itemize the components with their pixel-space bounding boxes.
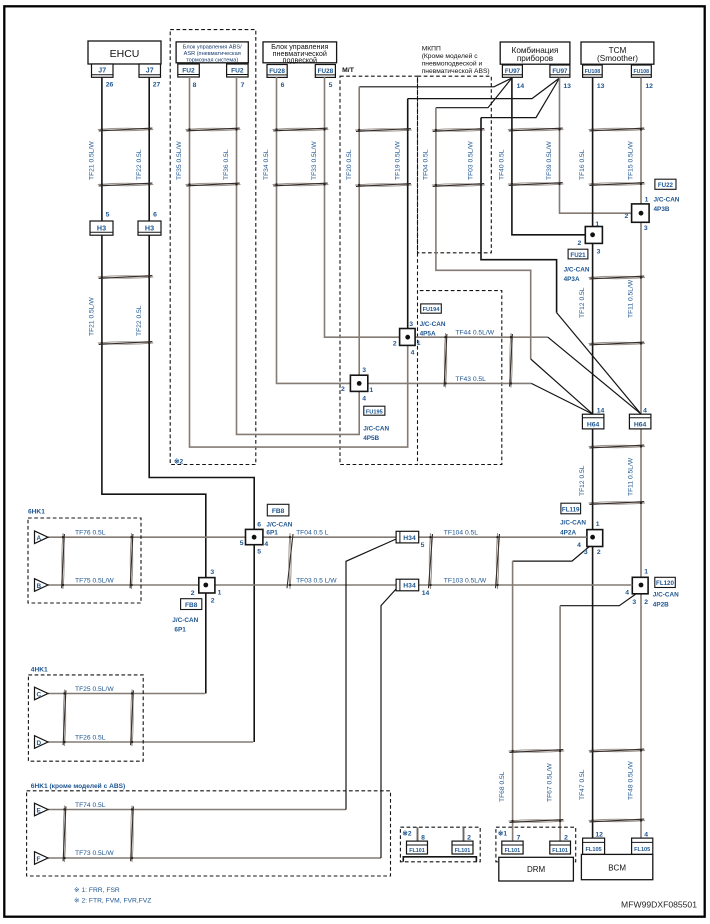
label box FU194 [421, 304, 442, 313]
svg-text:4P5A: 4P5A [420, 331, 436, 338]
svg-text:DRM: DRM [527, 865, 546, 874]
svg-text:※2: ※2 [174, 458, 184, 466]
twisted pair marks TF16/TF15 and TF12/TF11 and TF47/TF48 [589, 128, 645, 822]
svg-text:TF44 0.5L/W: TF44 0.5L/W [455, 330, 494, 337]
wire TF33 0.5L/W (FU28-5 to J/C-CAN 4P5A pin 2) [325, 77, 400, 337]
svg-text:H3: H3 [97, 223, 106, 232]
svg-text:14: 14 [422, 590, 430, 597]
connector FU28 (left) [267, 65, 287, 78]
svg-text:FL119: FL119 [562, 506, 580, 513]
svg-text:8: 8 [193, 82, 197, 89]
svg-text:3: 3 [409, 321, 413, 328]
wire TF76/TF04/TF104 0.5L (triangle A to 4P2A) [48, 536, 587, 538]
svg-text:(Smoother): (Smoother) [597, 54, 638, 63]
twisted pair marks TF74/TF73 [63, 806, 133, 863]
svg-text:J/C-CAN: J/C-CAN [654, 196, 680, 203]
triangle connector E [35, 803, 49, 816]
svg-text:TF04 0.5 L: TF04 0.5 L [296, 530, 329, 537]
svg-text:8: 8 [421, 835, 425, 842]
twisted pair marks TF34/TF33 [273, 128, 329, 186]
twisted pair marks TF44/TF43 [444, 333, 512, 387]
triangle connector F [35, 852, 49, 865]
svg-text:2: 2 [644, 599, 648, 606]
svg-text:5: 5 [240, 540, 244, 547]
svg-text:FU22: FU22 [658, 182, 674, 189]
connector H3 (right) [138, 221, 161, 235]
svg-text:TF74 0.5L: TF74 0.5L [75, 802, 106, 809]
svg-text:J7: J7 [98, 68, 106, 75]
connector FL105 (left) [583, 838, 605, 854]
svg-text:BCM: BCM [608, 864, 626, 873]
svg-text:5: 5 [106, 212, 110, 219]
unit BCM [581, 854, 652, 879]
svg-text:2: 2 [191, 590, 195, 597]
svg-text:H64: H64 [587, 422, 600, 429]
svg-text:TF04 0.5L: TF04 0.5L [423, 149, 430, 180]
label box FL119 [561, 503, 581, 514]
svg-text:TF19 0.5L/W: TF19 0.5L/W [394, 141, 401, 180]
svg-text:FU28: FU28 [318, 68, 334, 75]
svg-text:TF11 0.5L/W: TF11 0.5L/W [628, 457, 635, 496]
svg-text:1: 1 [369, 387, 373, 394]
svg-text:4: 4 [577, 542, 581, 549]
unit TCM (Smoother) [581, 42, 654, 64]
svg-text:4P3B: 4P3B [654, 206, 670, 213]
connector FU28 (right) [315, 65, 335, 78]
svg-text:6: 6 [257, 521, 261, 528]
svg-text:J/C-CAN: J/C-CAN [172, 617, 198, 624]
label box FL120 [655, 577, 676, 587]
svg-text:4: 4 [644, 831, 648, 838]
unit EHCU [88, 41, 161, 64]
connector FU97 (left) [502, 65, 522, 77]
wire TF15/TF11/TF48 0.5L/W (FU108-12 through 4P3B, H64-4, 4P2B to BCM FL105-4) [640, 78, 642, 839]
svg-text:FL101: FL101 [505, 848, 521, 854]
wire TF25 0.5L/W (triangle C to FB8 lower junction) [48, 693, 205, 695]
svg-text:подвеской: подвеской [283, 55, 318, 64]
svg-text:14: 14 [517, 83, 525, 90]
svg-text:FU21: FU21 [570, 252, 586, 259]
svg-text:2: 2 [211, 598, 215, 605]
wire TF26 0.5L (triangle D to FB8 upper junction) [48, 741, 253, 743]
partial unit outline (alt DRM) [403, 857, 476, 862]
dashed box 6HK1 [28, 518, 141, 603]
svg-text:F: F [37, 856, 41, 863]
junction FB8 J/C-CAN 6P1 (upper) [246, 529, 263, 544]
svg-text:6P1: 6P1 [266, 529, 278, 536]
triangle connector B [35, 579, 49, 592]
svg-text:※ 1: FRR, FSR: ※ 1: FRR, FSR [74, 887, 120, 894]
junction J/C-CAN 4P3A [585, 227, 602, 244]
svg-text:E: E [37, 807, 42, 814]
svg-text:2: 2 [467, 835, 471, 842]
label MKPP note [422, 46, 490, 75]
svg-text:※2: ※2 [402, 830, 412, 838]
svg-text:D: D [37, 740, 42, 747]
svg-text:TF12 0.5L: TF12 0.5L [579, 465, 586, 496]
svg-text:4: 4 [264, 541, 268, 548]
connector FU2 (left) [178, 64, 200, 77]
connector FU2 (right) [227, 64, 249, 77]
svg-text:4: 4 [362, 396, 366, 403]
svg-text:27: 27 [153, 82, 161, 89]
svg-text:ASR (пневматическая: ASR (пневматическая [184, 51, 241, 57]
svg-text:5: 5 [421, 542, 425, 549]
svg-text:TF40 0.5L: TF40 0.5L [499, 149, 506, 180]
svg-text:J/C-CAN: J/C-CAN [266, 521, 292, 528]
connector FL101 (DRM right) [550, 841, 571, 854]
unit ABS/ASR control block header [176, 42, 248, 64]
svg-text:4: 4 [411, 350, 415, 357]
svg-text:TF39 0.5L/W: TF39 0.5L/W [546, 141, 553, 180]
svg-text:7: 7 [241, 82, 245, 89]
wire TF36 0.5L (FU2-7 to J/C-CAN 4P5B pin 4) [237, 77, 360, 434]
svg-text:приборов: приборов [517, 54, 553, 63]
svg-text:H3: H3 [145, 223, 154, 232]
wire TF04 0.5L (FU97-14 feed to H64-14) [436, 78, 512, 108]
svg-text:14: 14 [597, 408, 605, 415]
wire TF35 0.5L/W (FU2-8 to J/C-CAN 4P5A pin 4) [190, 77, 408, 447]
svg-text:TF26 0.5L: TF26 0.5L [75, 735, 106, 742]
svg-text:H64: H64 [634, 422, 647, 429]
wire TF03 0.5L/W (FU97-13 feed to H64-4) [481, 78, 560, 118]
connector FL101 (alt left) [407, 841, 428, 854]
junction J/C-CAN 4P5B [350, 375, 367, 391]
svg-text:2: 2 [341, 386, 345, 393]
twisted pair marks TF25/TF26 [63, 690, 133, 747]
label box FB8 (lower) [181, 599, 202, 610]
svg-text:FL101: FL101 [552, 848, 568, 854]
svg-text:тормозная система): тормозная система) [186, 58, 238, 64]
wire TF44 0.5L/W (4P5A pin 1 to H64-4) [415, 336, 548, 338]
svg-text:4HK1: 4HK1 [31, 667, 48, 674]
svg-text:FL101: FL101 [455, 848, 471, 854]
svg-text:A: A [37, 535, 42, 542]
svg-text:2: 2 [578, 240, 582, 247]
dashed box alternative DRM (note 2) [400, 827, 480, 862]
wire TF19 0.5L/W (FU97-13 feed to J/C-CAN 4P5A pin 3) [408, 78, 560, 99]
connector H34 (lower) [396, 579, 419, 591]
wire TF67 0.5L/W (4P2B pin 3 to DRM FL101-2) [560, 593, 637, 606]
svg-text:J/C-CAN: J/C-CAN [363, 426, 389, 433]
junction J/C-CAN 4P5A [400, 329, 416, 346]
connector J7 (left) [92, 64, 114, 77]
svg-text:M/T: M/T [342, 67, 355, 74]
connector FL101 (DRM left) [502, 841, 523, 854]
twisted pair marks TF40/TF39 [508, 128, 564, 185]
svg-text:FU28: FU28 [269, 68, 285, 75]
svg-text:пневмоподвеской и: пневмоподвеской и [422, 59, 483, 67]
twisted pair marks TF76/TF75 [62, 533, 133, 589]
svg-text:1: 1 [595, 221, 599, 228]
wire TF39 0.5L/W (FU97-13 to J/C-CAN 4P3B pin 2) [560, 78, 632, 214]
unit DRM [499, 857, 574, 881]
svg-text:FL105: FL105 [634, 847, 650, 853]
junction J/C-CAN 4P2A [587, 530, 603, 547]
svg-text:J/C-CAN: J/C-CAN [420, 321, 446, 328]
connector H64 (left) [582, 414, 604, 429]
label box FU22 [655, 179, 676, 189]
svg-text:2: 2 [597, 549, 601, 556]
svg-text:TF68 0.5L: TF68 0.5L [499, 771, 506, 802]
svg-text:26: 26 [106, 82, 114, 89]
dashed box DRM connectors (note 1) [496, 827, 576, 862]
svg-text:TF22 0.5L: TF22 0.5L [136, 149, 143, 180]
twisted pair marks TF20/TF19 [355, 129, 412, 187]
svg-text:TF25 0.5L/W: TF25 0.5L/W [75, 686, 114, 693]
wire TF40 0.5L (FU97-14 to J/C-CAN 4P3A pin 2) [512, 78, 585, 235]
junction J/C-CAN 4P3B [632, 204, 650, 222]
svg-text:6HK1: 6HK1 [28, 509, 45, 516]
svg-text:B: B [37, 583, 42, 590]
connector FL105 (right) [632, 838, 653, 854]
dashed box FU194/FU195 group [420, 291, 502, 465]
svg-text:FU195: FU195 [366, 409, 383, 415]
svg-text:TF48 0.5L/W: TF48 0.5L/W [628, 761, 635, 800]
svg-text:3: 3 [584, 549, 588, 556]
wire TF21 0.5L/W (EHCU J7-26 to FB8 6P1 lower junction to 4HK1) [102, 77, 206, 693]
junction FB8 J/C-CAN 6P1 (lower) [199, 578, 215, 593]
svg-text:3: 3 [632, 599, 636, 606]
svg-text:FB8: FB8 [185, 602, 198, 609]
svg-text:12: 12 [595, 831, 603, 838]
dashed box M/T [340, 76, 418, 464]
svg-text:FB8: FB8 [272, 508, 285, 515]
svg-text:J/C-CAN: J/C-CAN [560, 520, 586, 527]
svg-text:2: 2 [564, 835, 568, 842]
wire TF34 0.5L (FU28-6 to J/C-CAN 4P5B pin 2) [277, 77, 351, 383]
svg-text:4: 4 [643, 408, 647, 415]
svg-text:4P2B: 4P2B [653, 602, 669, 609]
connector H3 (left) [90, 221, 113, 235]
dashed box 6HK1 (krome ABS) [27, 791, 391, 876]
svg-text:4P3A: 4P3A [564, 276, 580, 283]
label box FU195 [364, 406, 385, 415]
svg-text:TF104 0.5L: TF104 0.5L [444, 530, 478, 537]
svg-text:FL105: FL105 [586, 847, 602, 853]
svg-text:6HK1 (кроме моделей с ABS): 6HK1 (кроме моделей с ABS) [31, 782, 125, 790]
wire TF73 0.5L/W (triangle F to H34 lower) [48, 857, 381, 859]
wire stub FL101-2 [463, 827, 465, 841]
svg-text:2: 2 [393, 341, 397, 348]
svg-text:EHCU: EHCU [110, 48, 140, 60]
wire TF20 0.5L (FU97-14 feed to J/C-CAN 4P5B pin 3) [359, 78, 512, 87]
twisted pair marks TF68/TF67 [509, 750, 564, 823]
svg-text:TF33 0.5L/W: TF33 0.5L/W [311, 141, 318, 180]
svg-text:※ 2: FTR, FVM, FVR,FVZ: ※ 2: FTR, FVM, FVR,FVZ [74, 898, 151, 905]
connector FU108 (left) [583, 65, 603, 77]
svg-text:5: 5 [329, 82, 333, 89]
svg-text:TF76 0.5L: TF76 0.5L [75, 530, 106, 537]
wire TF43 0.5L (4P5B pin 1 to H64-14) [368, 382, 532, 384]
junction J/C-CAN 4P2B [632, 577, 648, 594]
svg-text:13: 13 [563, 83, 571, 90]
svg-text:FU2: FU2 [231, 67, 244, 74]
wire TF75/TF03/TF103 0.5L/W (triangle B to 4P2B) [48, 584, 632, 586]
svg-text:МКПП: МКПП [422, 46, 441, 53]
svg-text:3: 3 [597, 249, 601, 256]
label box FB8 (upper) [267, 504, 289, 516]
dashed box 4HK1 [28, 675, 143, 761]
svg-text:6: 6 [281, 82, 285, 89]
twisted pair mark TF04/TF03 (after FB8) [287, 533, 293, 589]
svg-text:TF43 0.5L: TF43 0.5L [455, 376, 486, 383]
svg-text:J/C-CAN: J/C-CAN [653, 592, 679, 599]
svg-text:TF03 0.5 L/W: TF03 0.5 L/W [296, 578, 337, 585]
svg-text:TF15 0.5L/W: TF15 0.5L/W [628, 141, 635, 180]
svg-text:TF20 0.5L: TF20 0.5L [346, 149, 353, 180]
svg-text:FU108: FU108 [634, 69, 650, 75]
connector H64 (right) [629, 414, 651, 429]
twisted pair marks TF21/TF22 [98, 128, 153, 344]
dashed box ABS/ASR control unit [170, 30, 256, 465]
svg-text:2: 2 [625, 213, 629, 220]
unit air suspension control block [263, 42, 337, 65]
svg-text:J/C-CAN: J/C-CAN [564, 266, 590, 273]
unit instrument cluster [500, 42, 570, 64]
wire TF74 0.5L (triangle E to H34 upper) [48, 809, 346, 811]
svg-text:1: 1 [644, 569, 648, 576]
svg-text:※1: ※1 [498, 830, 508, 838]
svg-text:FU97: FU97 [552, 68, 568, 75]
dashed box MKPP [418, 76, 492, 253]
svg-text:TF35 0.5L/W: TF35 0.5L/W [176, 141, 183, 180]
svg-text:J7: J7 [146, 68, 154, 75]
triangle connector D [35, 736, 49, 749]
svg-text:Блок управления ABS/: Блок управления ABS/ [183, 45, 242, 51]
svg-text:(Кроме моделей с: (Кроме моделей с [422, 52, 479, 60]
svg-text:FL101: FL101 [409, 848, 425, 854]
svg-text:FU97: FU97 [505, 68, 521, 75]
svg-text:TF12 0.5L: TF12 0.5L [579, 287, 586, 318]
twisted pair marks TF104/TF103 [429, 533, 500, 589]
svg-text:FL120: FL120 [656, 580, 674, 587]
svg-text:TF34 0.5L: TF34 0.5L [263, 149, 270, 180]
svg-text:TF22 0.5L: TF22 0.5L [136, 305, 143, 336]
twisted pair marks TF35/TF36 [186, 128, 241, 186]
svg-text:1: 1 [645, 196, 649, 203]
svg-text:7: 7 [517, 835, 521, 842]
svg-text:3: 3 [210, 569, 214, 576]
triangle connector C [35, 687, 49, 700]
svg-text:6: 6 [153, 212, 157, 219]
svg-text:4: 4 [625, 590, 629, 597]
svg-text:MFW99DXF085501: MFW99DXF085501 [621, 900, 697, 910]
label box FU21 [568, 249, 588, 259]
connector J7 (right) [139, 64, 161, 77]
connector H34 (upper) [396, 531, 419, 543]
svg-text:4P2A: 4P2A [560, 530, 576, 537]
svg-text:TF75 0.5L/W: TF75 0.5L/W [75, 578, 114, 585]
svg-text:3: 3 [644, 225, 648, 232]
svg-text:TF21 0.5L/W: TF21 0.5L/W [89, 141, 96, 180]
connector FL101 (alt right) [452, 841, 473, 854]
svg-text:TF103 0.5L/W: TF103 0.5L/W [444, 578, 487, 585]
svg-text:TF16 0.5L: TF16 0.5L [579, 149, 586, 180]
svg-text:H34: H34 [403, 535, 416, 542]
connector FU97 (right) [550, 65, 570, 77]
svg-text:FU108: FU108 [585, 69, 601, 75]
svg-text:TF67 0.5L/W: TF67 0.5L/W [547, 763, 554, 802]
triangle connector A [35, 531, 49, 544]
svg-text:H34: H34 [403, 583, 416, 590]
svg-text:TF36 0.5L: TF36 0.5L [223, 149, 230, 180]
wire TF22 0.5L (EHCU J7-27 to FB8 6P1 upper junction to 4HK1) [149, 77, 254, 742]
twisted pair marks TF04/TF03 [432, 129, 485, 187]
svg-text:12: 12 [645, 83, 653, 90]
wire TF16/TF12/TF47 0.5L (FU108-13 through 4P3A, H64-14, 4P2A to BCM FL105-12) [592, 78, 594, 839]
svg-text:FU2: FU2 [182, 67, 195, 74]
svg-text:TF21 0.5L/W: TF21 0.5L/W [89, 297, 96, 336]
svg-text:1: 1 [218, 589, 222, 596]
svg-text:13: 13 [597, 83, 605, 90]
svg-text:5: 5 [257, 548, 261, 555]
svg-text:1: 1 [596, 521, 600, 528]
wire stub FL101-8 [417, 827, 419, 841]
svg-text:пневматической ABS): пневматической ABS) [422, 67, 490, 75]
svg-text:TF73 0.5L/W: TF73 0.5L/W [75, 850, 114, 857]
svg-text:FU194: FU194 [423, 307, 441, 313]
svg-text:6P1: 6P1 [174, 627, 186, 634]
svg-text:TF47 0.5L: TF47 0.5L [579, 769, 586, 800]
connector FU108 (right) [631, 65, 651, 77]
svg-text:TF03 0.5L/W: TF03 0.5L/W [468, 141, 475, 180]
svg-text:3: 3 [362, 367, 366, 374]
svg-text:C: C [37, 691, 42, 698]
svg-text:4P5B: 4P5B [363, 435, 379, 442]
svg-text:1: 1 [417, 340, 421, 347]
svg-text:TF11 0.5L/W: TF11 0.5L/W [628, 279, 635, 318]
wire TF68 0.5L (4P2A pin 3 to DRM FL101-7) [513, 546, 591, 562]
